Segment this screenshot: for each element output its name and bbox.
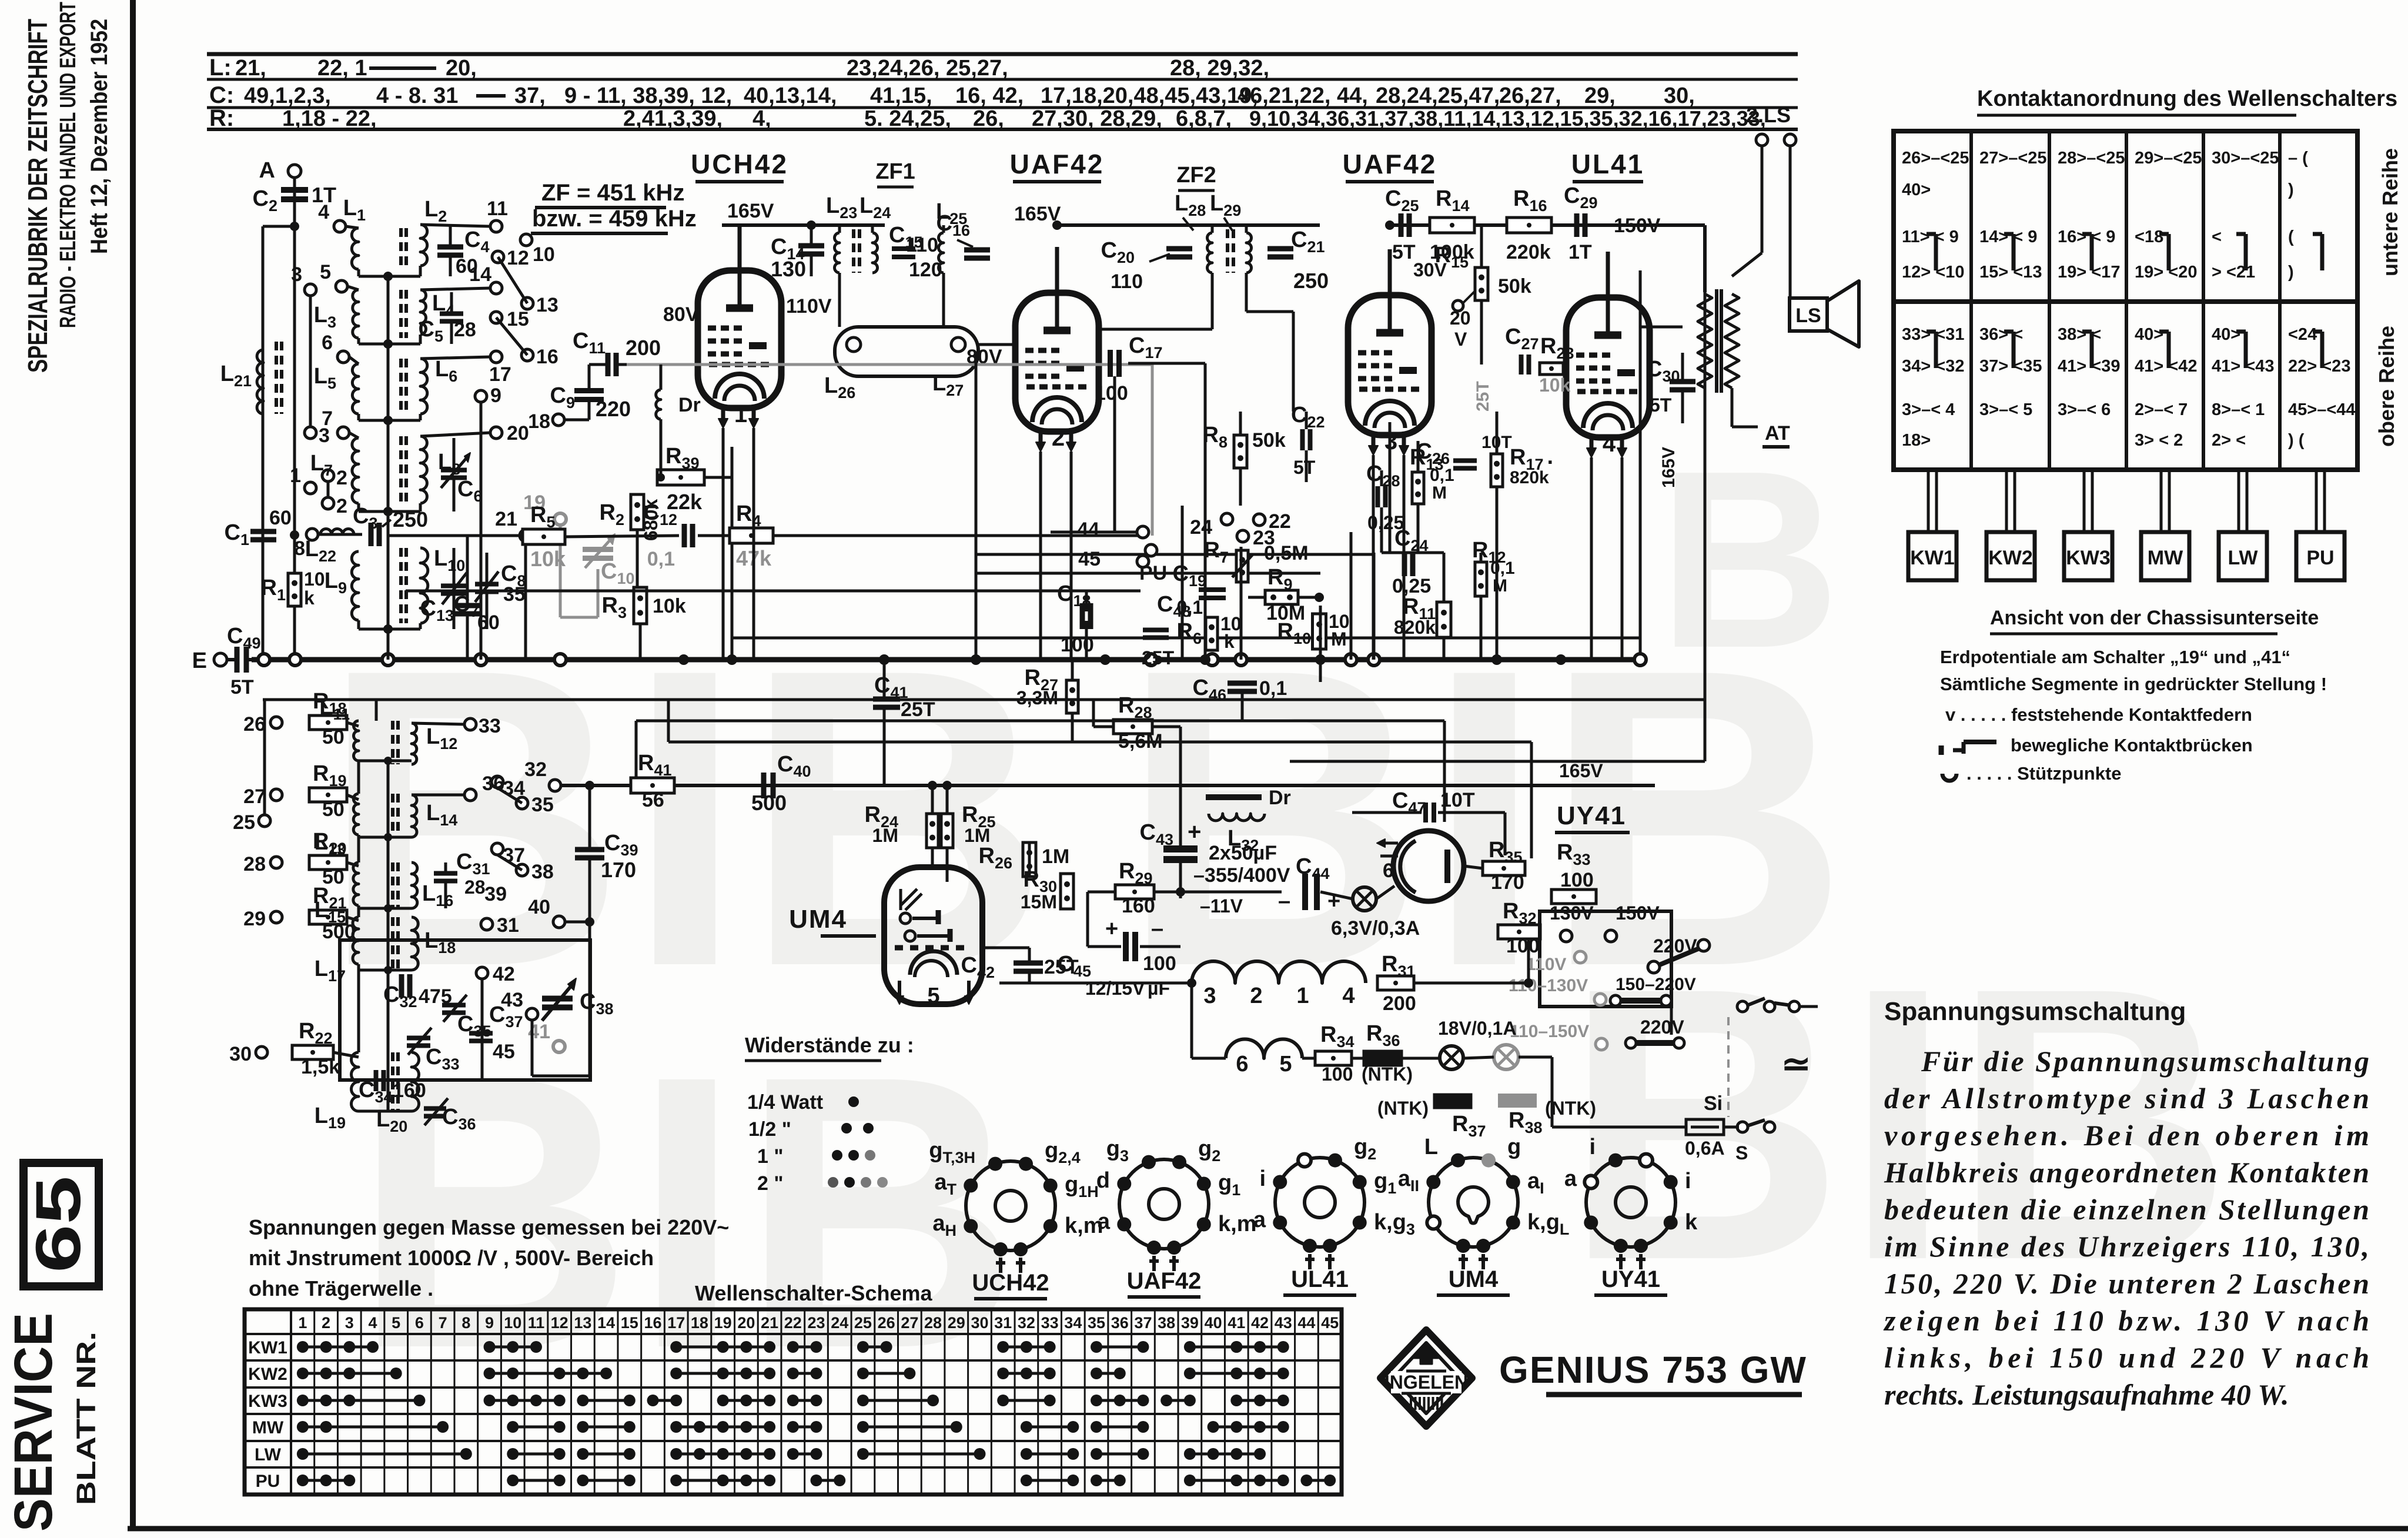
svg-text:26,27,: 26,27, [1499, 83, 1561, 108]
svg-text:30: 30 [229, 1043, 252, 1065]
svg-text:26,: 26, [973, 106, 1004, 131]
svg-text:19: 19 [714, 1314, 732, 1332]
svg-text:56: 56 [642, 789, 664, 811]
svg-text:31: 31 [994, 1314, 1012, 1332]
svg-text:18: 18 [691, 1314, 708, 1332]
svg-text:40>: 40> [2135, 325, 2163, 344]
svg-text:22> <23: 22> <23 [2288, 357, 2350, 376]
svg-text:0,1: 0,1 [647, 548, 675, 570]
svg-text:BLATT NR.: BLATT NR. [71, 1332, 101, 1505]
svg-text:25T: 25T [901, 698, 935, 721]
svg-text:21: 21 [761, 1314, 778, 1332]
svg-text:10: 10 [304, 569, 325, 590]
svg-text:30,: 30, [1664, 83, 1695, 108]
svg-text:45>–<44: 45>–<44 [2288, 400, 2356, 419]
svg-text:k: k [1685, 1210, 1698, 1235]
svg-text:4,: 4, [752, 106, 771, 131]
svg-text:Für die Spannungsumschal: Für die Spannungsumschaltung [1921, 1045, 2369, 1078]
svg-text:1T: 1T [1568, 241, 1592, 263]
svg-text:1M: 1M [872, 825, 898, 846]
svg-text:36: 36 [482, 773, 504, 795]
svg-text:7: 7 [439, 1314, 447, 1332]
svg-text:29: 29 [948, 1314, 965, 1332]
svg-text:16> < 9: 16> < 9 [2058, 228, 2115, 246]
svg-text:37,: 37, [514, 83, 546, 108]
svg-text:20: 20 [737, 1314, 755, 1332]
svg-text:22: 22 [784, 1314, 802, 1332]
svg-text:6,8,7,: 6,8,7, [1176, 106, 1232, 131]
svg-text:41> <43: 41> <43 [2212, 357, 2274, 376]
svg-text:6: 6 [322, 332, 333, 354]
svg-text:34: 34 [1064, 1314, 1082, 1332]
svg-text:L:: L: [209, 55, 232, 81]
svg-text:E: E [192, 648, 207, 673]
svg-text:1,18 - 22,: 1,18 - 22, [282, 106, 377, 131]
svg-text:1: 1 [298, 1314, 307, 1332]
svg-text:39: 39 [1181, 1314, 1199, 1332]
svg-text:mit Jnstrument 1000Ω /V , 500: mit Jnstrument 1000Ω /V , 500V- Bereich [249, 1246, 654, 1270]
svg-text:MW: MW [2148, 547, 2183, 569]
svg-text:3: 3 [345, 1314, 354, 1332]
svg-text:2.LS: 2.LS [1746, 103, 1791, 127]
svg-text:UCH42: UCH42 [972, 1270, 1049, 1296]
svg-text:41,15,: 41,15, [870, 83, 932, 108]
svg-text:≃: ≃ [1781, 1044, 1811, 1084]
svg-text:46,21,22, 44,: 46,21,22, 44, [1238, 83, 1368, 108]
svg-text:820k: 820k [1394, 617, 1436, 638]
svg-text:0,25: 0,25 [1392, 575, 1431, 597]
svg-text:16: 16 [644, 1314, 661, 1332]
svg-text:a: a [1564, 1166, 1577, 1191]
svg-text:36> <: 36> < [1979, 325, 2023, 344]
svg-text:40>: 40> [1902, 180, 1931, 199]
svg-text:60: 60 [269, 507, 292, 529]
svg-text:0,1: 0,1 [1490, 559, 1515, 578]
svg-text:165V: 165V [1559, 760, 1603, 781]
svg-text:k: k [304, 587, 315, 608]
svg-text:UCH42: UCH42 [691, 149, 788, 179]
svg-text:S: S [1735, 1142, 1748, 1163]
svg-text:100: 100 [1095, 382, 1128, 404]
svg-text:Dr: Dr [678, 394, 701, 416]
svg-text:16, 42,: 16, 42, [955, 83, 1024, 108]
svg-text:2x50µF: 2x50µF [1209, 842, 1277, 864]
svg-text:29,: 29, [1584, 83, 1616, 108]
svg-text:k: k [1224, 631, 1235, 652]
svg-text:100: 100 [1322, 1064, 1353, 1085]
svg-text:10k: 10k [1539, 375, 1571, 396]
svg-text:28, 29,32,: 28, 29,32, [1170, 56, 1269, 81]
svg-text:bedeuten die einzelnen Stel: bedeuten die einzelnen Stellungen [1884, 1193, 2369, 1226]
svg-text:50k: 50k [1252, 429, 1286, 452]
svg-text:110: 110 [1111, 270, 1143, 293]
svg-text:22, 1: 22, 1 [317, 56, 367, 81]
svg-text:–: – [1278, 889, 1290, 914]
svg-text:30V: 30V [1413, 259, 1447, 280]
svg-text:L: L [1424, 1135, 1438, 1159]
svg-text:R:: R: [209, 105, 234, 131]
svg-text:41: 41 [1228, 1314, 1245, 1332]
svg-text:Ansicht von der Chassisunterse: Ansicht von der Chassisunterseite [1990, 607, 2319, 629]
svg-text:220V: 220V [1640, 1017, 1684, 1038]
svg-text:Wellenschalter-Schema: Wellenschalter-Schema [695, 1281, 932, 1305]
svg-text:2,41,3,39,: 2,41,3,39, [623, 106, 723, 131]
svg-text:8: 8 [461, 1314, 470, 1332]
svg-text:20: 20 [1450, 307, 1471, 329]
svg-text:27: 27 [243, 785, 266, 808]
svg-text:Widerstände zu :: Widerstände zu : [745, 1033, 914, 1057]
svg-text:37: 37 [503, 844, 525, 867]
svg-text:GENIUS 753 GW: GENIUS 753 GW [1499, 1349, 1807, 1391]
svg-text:links, bei 150 und 220: links, bei 150 und 220 V nach [1884, 1341, 2369, 1374]
svg-text:> <21: > <21 [2212, 263, 2255, 282]
svg-text:45: 45 [1321, 1314, 1339, 1332]
svg-text:34: 34 [503, 777, 525, 800]
svg-text:100: 100 [1061, 634, 1094, 656]
svg-text:3> < 2: 3> < 2 [2135, 431, 2183, 450]
svg-text:3: 3 [1203, 984, 1216, 1008]
svg-text:9: 9 [490, 384, 501, 407]
svg-text:50k: 50k [1498, 275, 1531, 297]
svg-text:17: 17 [667, 1314, 685, 1332]
svg-text:10T: 10T [1440, 789, 1475, 811]
svg-text:UM4: UM4 [789, 905, 847, 934]
svg-text:33: 33 [479, 715, 501, 737]
svg-text:44: 44 [1297, 1314, 1315, 1332]
svg-text:vorgesehen. Bei den ober: vorgesehen. Bei den oberen im [1884, 1119, 2369, 1152]
svg-text:5T: 5T [1650, 394, 1672, 416]
svg-text:22k: 22k [667, 490, 703, 514]
svg-text:28>–<25: 28>–<25 [2058, 149, 2125, 168]
svg-text:PU: PU [256, 1472, 280, 1491]
svg-text:4: 4 [318, 201, 329, 223]
svg-text:<24: <24 [2288, 325, 2317, 344]
svg-text:(NTK): (NTK) [1377, 1098, 1429, 1119]
svg-text:27: 27 [901, 1314, 918, 1332]
svg-text:6: 6 [415, 1314, 424, 1332]
svg-text:a: a [1253, 1208, 1266, 1232]
svg-text:28: 28 [924, 1314, 942, 1332]
svg-text:18>: 18> [1902, 431, 1931, 450]
svg-text:38> <: 38> < [2058, 325, 2101, 344]
svg-text:A: A [259, 158, 275, 183]
svg-text:LW: LW [255, 1445, 282, 1465]
svg-text:M: M [1432, 483, 1447, 503]
svg-text:0,6A: 0,6A [1685, 1138, 1725, 1159]
svg-text:2: 2 [1052, 425, 1065, 451]
svg-text:0,1: 0,1 [1430, 466, 1454, 485]
svg-text:49,1,2,3,: 49,1,2,3, [244, 83, 331, 108]
svg-text:INGELEN: INGELEN [1384, 1372, 1468, 1393]
svg-text:33> <31: 33> <31 [1902, 325, 1964, 344]
svg-text:4: 4 [1603, 431, 1616, 457]
svg-text:13: 13 [536, 294, 558, 316]
svg-text:37: 37 [1134, 1314, 1152, 1332]
svg-text:25: 25 [233, 811, 255, 834]
svg-text:15: 15 [507, 308, 529, 330]
svg-text:2: 2 [322, 1314, 330, 1332]
svg-text:Erdpotentiale am Schalter „19“: Erdpotentiale am Schalter „19“ und „41“ [1940, 647, 2290, 667]
svg-text:65: 65 [22, 1176, 93, 1273]
svg-text:1/4 Watt: 1/4 Watt [747, 1091, 823, 1114]
svg-text:(: ( [2288, 228, 2294, 246]
svg-text:rechts. Leistungsaufnahme 40: rechts. Leistungsaufnahme 40 W. [1884, 1378, 2289, 1411]
svg-text:ZF2: ZF2 [1176, 163, 1216, 188]
svg-text:15> <13: 15> <13 [1979, 263, 2042, 282]
svg-text:5: 5 [392, 1314, 400, 1332]
svg-text:220k: 220k [1506, 241, 1551, 263]
svg-text:165V: 165V [727, 200, 774, 222]
svg-text:12: 12 [551, 1314, 568, 1332]
svg-text:M: M [1331, 628, 1347, 650]
svg-text:M: M [1493, 576, 1507, 596]
svg-text:50: 50 [322, 726, 345, 748]
svg-text:UAF42: UAF42 [1010, 149, 1105, 179]
svg-text:20,: 20, [446, 56, 477, 81]
svg-text:) (: ) ( [2288, 431, 2305, 450]
svg-text:37> <35: 37> <35 [1979, 357, 2042, 376]
svg-text:38: 38 [531, 861, 554, 883]
svg-text:14: 14 [597, 1314, 615, 1332]
svg-text:9,10,34,36,31,37,38,11,14,13,1: 9,10,34,36,31,37,38,11,14,13,12,15,35,32… [1249, 106, 1766, 131]
svg-text:11: 11 [487, 198, 508, 220]
svg-text:6: 6 [1236, 1052, 1248, 1076]
svg-text:+: + [1105, 917, 1118, 941]
svg-text:SERVICE: SERVICE [4, 1313, 63, 1532]
svg-text:110V: 110V [1526, 955, 1566, 974]
svg-text:34> <32: 34> <32 [1902, 357, 1964, 376]
svg-text:LS: LS [1795, 305, 1821, 327]
svg-text:Si: Si [1704, 1092, 1723, 1115]
svg-text:0,5M: 0,5M [1264, 542, 1309, 564]
svg-text:10k: 10k [530, 547, 566, 571]
svg-text:4: 4 [368, 1314, 377, 1332]
svg-text:28: 28 [454, 319, 476, 341]
svg-text:– (: – ( [2288, 149, 2308, 168]
svg-text:41> <39: 41> <39 [2058, 357, 2120, 376]
svg-text:1,5k: 1,5k [301, 1056, 340, 1078]
svg-text:820k: 820k [1510, 468, 1549, 487]
svg-text:KW1: KW1 [1910, 547, 1955, 569]
svg-text:KW2: KW2 [248, 1365, 287, 1384]
svg-text:obere Reihe: obere Reihe [2374, 326, 2399, 447]
svg-text:ZF1: ZF1 [875, 159, 915, 184]
svg-text:28,24,25,47,: 28,24,25,47, [1376, 83, 1500, 108]
svg-text:170: 170 [1491, 871, 1524, 894]
svg-text:45: 45 [1078, 548, 1101, 570]
svg-text:SPEZIALRUBRIK DER ZEITSCHRIFT: SPEZIALRUBRIK DER ZEITSCHRIFT [22, 19, 53, 373]
svg-text:12: 12 [507, 247, 529, 269]
svg-text:(NTK): (NTK) [1362, 1064, 1413, 1085]
svg-text:42: 42 [493, 963, 515, 985]
svg-text:38: 38 [1158, 1314, 1175, 1332]
svg-text:120: 120 [909, 259, 942, 281]
svg-text:2: 2 [336, 495, 347, 517]
svg-text:8>–< 1: 8>–< 1 [2212, 400, 2265, 419]
svg-text:150–220V: 150–220V [1616, 975, 1696, 994]
svg-text:250: 250 [1293, 269, 1329, 293]
svg-text:i: i [1259, 1166, 1266, 1191]
svg-text:3>–< 5: 3>–< 5 [1979, 400, 2032, 419]
svg-text:B: B [1658, 419, 1841, 701]
svg-text:17: 17 [489, 363, 511, 386]
svg-text:60: 60 [477, 611, 500, 634]
svg-text:AT: AT [1765, 422, 1790, 444]
svg-text:): ) [2288, 180, 2294, 199]
svg-text:25T: 25T [1473, 381, 1493, 412]
svg-text:100: 100 [1143, 952, 1176, 975]
svg-text:. . . . . Stützpunkte: . . . . . Stützpunkte [1966, 763, 2122, 784]
svg-text:UAF42: UAF42 [1343, 149, 1437, 179]
svg-text:1 ": 1 " [757, 1145, 783, 1168]
svg-text:4 - 8. 31: 4 - 8. 31 [376, 83, 458, 108]
svg-text:100: 100 [1506, 935, 1540, 957]
svg-text:2: 2 [336, 467, 347, 489]
svg-text:1M: 1M [1042, 845, 1069, 868]
svg-text:13: 13 [574, 1314, 591, 1332]
svg-text:33: 33 [1041, 1314, 1059, 1332]
svg-text:UY41: UY41 [1601, 1266, 1660, 1292]
svg-text:): ) [2288, 263, 2294, 282]
svg-text:18: 18 [528, 410, 550, 433]
svg-text:19> <20: 19> <20 [2135, 263, 2197, 282]
svg-text:–11V: –11V [1200, 895, 1243, 917]
svg-text:5T: 5T [230, 676, 254, 698]
svg-text:9 - 11, 38,39, 12,: 9 - 11, 38,39, 12, [564, 83, 732, 108]
svg-text:7: 7 [322, 407, 333, 430]
svg-text:LW: LW [2228, 547, 2259, 569]
svg-text:<: < [2212, 228, 2222, 246]
svg-text:Heft 12, Dezember 1952: Heft 12, Dezember 1952 [86, 19, 112, 254]
svg-text:165V: 165V [1659, 447, 1678, 488]
svg-text:27>–<25: 27>–<25 [1979, 149, 2047, 168]
svg-text:Dr: Dr [1269, 787, 1291, 809]
svg-text:30>–<25: 30>–<25 [2212, 149, 2279, 168]
svg-text:41> <42: 41> <42 [2135, 357, 2197, 376]
svg-text:130: 130 [771, 257, 806, 281]
svg-text:UL41: UL41 [1291, 1266, 1349, 1292]
svg-text:PU: PU [2306, 547, 2334, 569]
svg-text:1: 1 [290, 464, 301, 487]
svg-text:bewegliche Kontaktbrücken: bewegliche Kontaktbrücken [2011, 735, 2253, 755]
svg-text:110: 110 [906, 234, 938, 256]
svg-text:19> <17: 19> <17 [2058, 263, 2120, 282]
svg-text:11: 11 [528, 1314, 545, 1332]
svg-text:150, 220 V. Die unteren 2: 150, 220 V. Die unteren 2 Laschen [1884, 1267, 2369, 1300]
svg-text:Halbkreis angeordneten Konta: Halbkreis angeordneten Kontakten [1884, 1156, 2369, 1189]
svg-text:110–150V: 110–150V [1510, 1022, 1589, 1041]
svg-text:170: 170 [601, 858, 636, 882]
svg-text:36: 36 [1111, 1314, 1129, 1332]
svg-text:43: 43 [1275, 1314, 1292, 1332]
svg-text:3: 3 [291, 263, 302, 286]
svg-text:26: 26 [878, 1314, 895, 1332]
svg-text:Kontaktanordnung des Wellensch: Kontaktanordnung des Wellenschalters [1977, 86, 2397, 111]
svg-text:32: 32 [1018, 1314, 1035, 1332]
svg-text:KW3: KW3 [248, 1392, 287, 1411]
svg-text:UL41: UL41 [1571, 149, 1644, 179]
svg-text:40: 40 [1205, 1314, 1222, 1332]
svg-text:KW1: KW1 [248, 1338, 287, 1358]
svg-text:5. 24,25,: 5. 24,25, [864, 106, 951, 131]
svg-text:14> < 9: 14> < 9 [1979, 228, 2037, 246]
svg-text:8: 8 [294, 537, 305, 560]
svg-text:80V: 80V [663, 303, 699, 326]
svg-text:5: 5 [1279, 1052, 1292, 1076]
svg-text:ZF = 451 kHz: ZF = 451 kHz [541, 180, 684, 206]
svg-text:UM4: UM4 [1449, 1266, 1499, 1292]
svg-text:32: 32 [524, 758, 547, 781]
svg-text:UY41: UY41 [1557, 801, 1626, 830]
svg-text:bzw. = 459 kHz: bzw. = 459 kHz [532, 206, 697, 232]
svg-text:10: 10 [533, 243, 555, 266]
svg-text:2>–< 7: 2>–< 7 [2135, 400, 2188, 419]
svg-text:27,30, 28,29,: 27,30, 28,29, [1032, 106, 1162, 131]
svg-text:PU: PU [1139, 562, 1167, 584]
svg-text:35: 35 [503, 583, 526, 606]
svg-text:6: 6 [1383, 860, 1394, 882]
svg-text:10k: 10k [653, 595, 686, 617]
svg-text:15M: 15M [1021, 891, 1057, 912]
svg-text:29: 29 [243, 908, 266, 930]
svg-text:110V: 110V [786, 295, 832, 317]
svg-text:+: + [1188, 819, 1201, 845]
svg-text:23: 23 [807, 1314, 825, 1332]
svg-text:110–130V: 110–130V [1509, 976, 1588, 995]
svg-text:6,3V/0,3A: 6,3V/0,3A [1331, 917, 1420, 939]
svg-text:Spannungsumschaltung: Spannungsumschaltung [1884, 997, 2186, 1026]
svg-text:d: d [1096, 1168, 1110, 1193]
svg-text:40: 40 [528, 896, 550, 918]
svg-text:24: 24 [1190, 516, 1212, 539]
svg-text:k,m: k,m [1218, 1212, 1256, 1236]
svg-text:1/2 ": 1/2 " [748, 1118, 791, 1141]
svg-text:26: 26 [243, 713, 266, 735]
svg-text:35: 35 [531, 794, 554, 816]
svg-text:3>–< 4: 3>–< 4 [1902, 400, 1955, 419]
svg-text:<18: <18 [2135, 228, 2163, 246]
svg-text:0,1: 0,1 [1259, 677, 1287, 700]
svg-text:i: i [1685, 1169, 1691, 1193]
svg-text:KW2: KW2 [1988, 547, 2033, 569]
svg-text:24: 24 [831, 1314, 848, 1332]
svg-text:KW3: KW3 [2066, 547, 2111, 569]
svg-text:1: 1 [1296, 984, 1309, 1008]
svg-text:160: 160 [1122, 895, 1155, 917]
svg-text:C:: C: [209, 82, 234, 108]
svg-text:12> <10: 12> <10 [1902, 263, 1964, 282]
svg-text:17,18,20,48,45,43,19,: 17,18,20,48,45,43,19, [1041, 83, 1258, 108]
svg-text:5T: 5T [1293, 457, 1316, 478]
svg-text:50: 50 [322, 798, 345, 821]
svg-text:39: 39 [484, 883, 507, 905]
svg-text:12/15V: 12/15V [1085, 978, 1145, 999]
svg-text:26>–<25: 26>–<25 [1902, 149, 1969, 168]
svg-text:30: 30 [971, 1314, 988, 1332]
svg-text:1: 1 [734, 402, 747, 427]
svg-text:5: 5 [927, 984, 939, 1008]
svg-text:160: 160 [393, 1079, 426, 1102]
svg-text:ohne Trägerwelle .: ohne Trägerwelle . [249, 1276, 433, 1300]
svg-text:100: 100 [1560, 869, 1594, 891]
svg-text:5: 5 [320, 261, 331, 283]
svg-text:der Allstromtype sind 3 La: der Allstromtype sind 3 Laschen [1884, 1082, 2369, 1115]
svg-text:40,13,14,: 40,13,14, [744, 83, 837, 108]
svg-text:16: 16 [536, 346, 558, 368]
svg-text:Spannungen gegen Masse gemesse: Spannungen gegen Masse gemessen bei 220V… [249, 1215, 729, 1239]
svg-text:15: 15 [621, 1314, 638, 1332]
svg-text:–355/400V: –355/400V [1193, 864, 1290, 887]
